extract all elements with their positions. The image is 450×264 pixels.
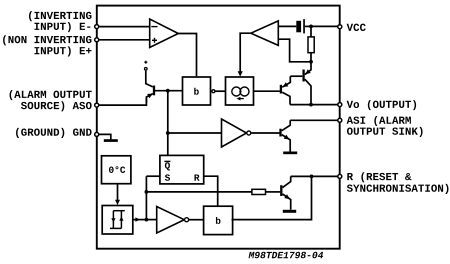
- wire b1 to oscillator: [215, 90, 225, 92]
- transistor Q2: [281, 76, 290, 104]
- label (NON INVERTING INPUT) E+: [3, 35, 91, 56]
- reference number M98TDE1798-04: [249, 252, 324, 259]
- flip-flop latch: [160, 155, 204, 184]
- transistor Q4: [281, 120, 291, 151]
- transistor Q3: [281, 176, 290, 209]
- wire ASI: [290, 119, 338, 121]
- op-amp U1 comparator: [150, 19, 179, 48]
- wire oscillator output to Q2 base: [254, 90, 280, 92]
- wire R reset: [291, 175, 339, 177]
- inverter U5: [157, 207, 189, 234]
- pin GND: [95, 132, 99, 136]
- wire U1 output to delay b1: [178, 34, 196, 77]
- wire reset line: [146, 191, 252, 193]
- transistor Q1: [290, 62, 311, 105]
- resistor R2: [252, 189, 280, 194]
- label (ALARM OUTPUT SOURCE) ASO: [10, 90, 92, 111]
- ground at Q3 emitter: [283, 210, 296, 213]
- pin ASO: [95, 103, 99, 107]
- wire E+ input: [97, 39, 150, 41]
- wire U4 to Q4 base: [251, 132, 279, 134]
- pin VCC: [338, 25, 342, 29]
- node Q-bar inverter junction: [166, 131, 170, 135]
- label (GROUND) GND: [16, 128, 92, 138]
- pin ASI: [338, 118, 342, 122]
- node R1 bottom junction: [309, 60, 313, 64]
- hysteresis block: [102, 206, 133, 235]
- wire b2 output to R net: [232, 176, 312, 219]
- wire U2 output to oscillator: [238, 33, 251, 76]
- temperature sensor 0degC block: [102, 156, 131, 184]
- resistor R1: [308, 26, 314, 61]
- pin Vo: [338, 103, 342, 107]
- supply terminal +: [144, 61, 147, 70]
- label ASI (ALARM OUTPUT SINK): [347, 116, 423, 137]
- node VCC junction: [309, 25, 313, 29]
- pin E-: [95, 25, 99, 29]
- node Vo junction: [309, 103, 313, 107]
- node R junction: [310, 175, 314, 179]
- wire GND to ground: [99, 134, 111, 139]
- wire S net: [146, 176, 160, 219]
- inverter bubble at b1 output: [212, 90, 215, 93]
- label VCC: [347, 24, 366, 31]
- wire U2 to capacitor C1: [278, 25, 296, 27]
- wire Q-bar net: [155, 91, 183, 156]
- node Q-bar b1 junction: [166, 89, 170, 93]
- delay block b2: [204, 206, 233, 234]
- pin R: [338, 174, 342, 178]
- pin E+: [95, 38, 99, 42]
- ground at Q4 emitter: [283, 152, 297, 155]
- label (INVERTING INPUT) E-: [29, 11, 91, 32]
- wire flip-flop R input: [204, 176, 218, 206]
- label R (RESET & SYNCHRONISATION): [347, 172, 449, 194]
- capacitor C1: [296, 19, 311, 33]
- wire hysteresis output: [133, 217, 146, 221]
- wire to inverter U5: [146, 219, 156, 221]
- label Vo (OUTPUT): [347, 100, 416, 110]
- op-amp U2 buffer: [251, 21, 278, 46]
- oscillator block U3: [226, 77, 254, 105]
- wire E- input: [97, 26, 150, 28]
- IC package outline: [97, 6, 340, 249]
- wire 0degC to hysteresis: [115, 184, 120, 205]
- transistor Q5: [146, 71, 154, 103]
- wire VCC rail: [311, 25, 338, 27]
- node S net R-line junction: [145, 190, 149, 194]
- node S net thermal junction: [145, 218, 149, 222]
- delay block b1: [183, 77, 211, 105]
- ground symbol at GND pin: [104, 139, 118, 142]
- inverter U4: [222, 119, 251, 147]
- wire U5 to delay b2: [189, 219, 204, 221]
- wire to inverter U4: [168, 132, 222, 134]
- wire Vo output: [290, 104, 338, 106]
- wire U2 feedback step: [278, 39, 311, 62]
- wire ASO: [97, 97, 147, 105]
